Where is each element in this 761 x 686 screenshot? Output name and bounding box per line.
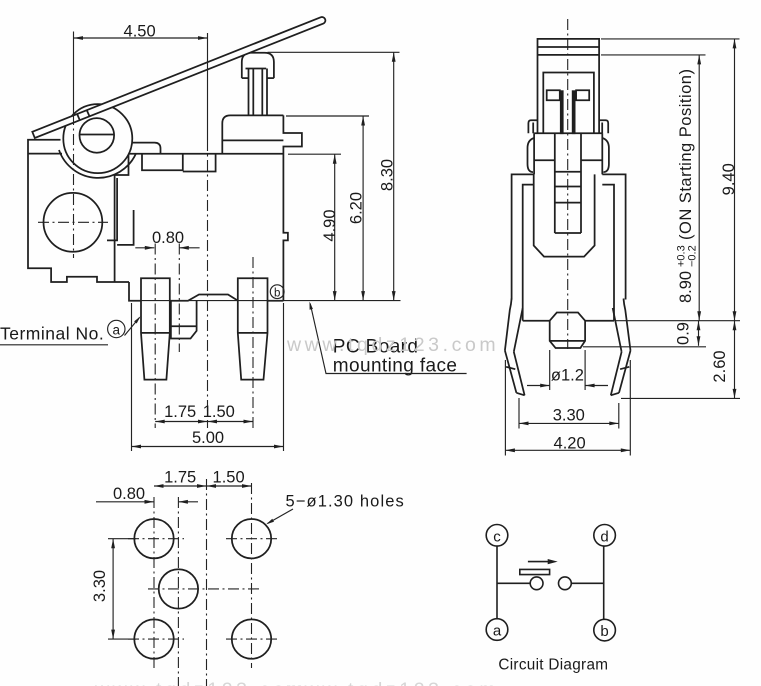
dim 4.50 line <box>74 37 208 39</box>
pcb center axis <box>206 479 208 686</box>
roller slot line <box>80 134 114 136</box>
svg-text:c: c <box>493 528 501 545</box>
body bottom face <box>523 320 550 322</box>
wire contact to d-b <box>571 582 603 584</box>
contact square right <box>576 90 589 100</box>
body pocket step 2 <box>183 154 216 172</box>
dim 3.30 line (pcb) <box>112 539 114 639</box>
svg-text:www.tqdz123.com: www.tqdz123.com <box>286 679 499 686</box>
side view: actuator lever <box>32 17 325 138</box>
leader from a to pin1 <box>125 318 140 336</box>
dim 3.30 extensions <box>518 398 520 429</box>
bracket inner step <box>107 178 117 240</box>
svg-text:5.00: 5.00 <box>192 429 224 447</box>
side clip left <box>528 138 535 172</box>
metal bracket outline <box>28 140 129 282</box>
moving contact plate <box>520 569 550 574</box>
hole row centerline top <box>128 538 184 540</box>
lower body inner lines <box>523 185 614 321</box>
hinge centerline / 4.50 extension left <box>73 32 75 115</box>
extension line body mid right <box>288 153 341 155</box>
extension line body top right <box>286 115 369 117</box>
side clip right <box>602 138 609 172</box>
svg-text:3.30: 3.30 <box>553 407 585 425</box>
dim 5.00 line <box>132 446 284 448</box>
body center axis / 4.50 extension right <box>207 33 209 140</box>
dim 0.80 line <box>135 247 154 249</box>
svg-text:b: b <box>600 623 608 640</box>
pcb hole middle <box>159 569 198 608</box>
dim 1.75/1.50 line <box>155 421 253 423</box>
dim phi1.2 extensions <box>549 350 551 390</box>
body inner pocket near pins <box>117 210 134 245</box>
stem bars <box>560 90 564 134</box>
dim 6.20 line <box>362 116 364 301</box>
svg-text:2.60: 2.60 <box>711 350 729 382</box>
hole column centerline middle <box>177 497 179 686</box>
dim 8.30 line <box>393 52 395 300</box>
svg-text:www.tqdz123.com: www.tqdz123.com <box>286 334 499 356</box>
front view inner window <box>543 73 594 134</box>
dim 0.80 line (pcb) <box>96 501 154 503</box>
dim 4.90 line <box>334 154 336 300</box>
extension cap top <box>601 38 740 40</box>
svg-text:−0.2: −0.2 <box>687 245 699 267</box>
svg-text:8.30: 8.30 <box>378 159 396 191</box>
dim 3.30 line <box>519 422 619 424</box>
extension mounting plane right <box>616 320 740 322</box>
svg-text:1.50: 1.50 <box>203 403 235 421</box>
dim 4.20 line <box>505 449 630 451</box>
pcb hole bottom-left <box>134 619 173 658</box>
hole row centerline bottom <box>128 638 184 640</box>
center pin <box>550 313 585 349</box>
hinge roller outer circle <box>63 104 132 173</box>
pcb hole top-left <box>134 519 173 558</box>
svg-text:4.90: 4.90 <box>321 209 339 241</box>
leg right <box>624 299 631 351</box>
dim 8.90 line <box>698 55 700 321</box>
svg-text:0.80: 0.80 <box>113 485 145 503</box>
dim 9.40 line <box>734 39 736 321</box>
dim 8.90 +0.3 -0.2 (ON Starting Position) text <box>676 69 699 303</box>
dim 4.20 extensions <box>504 360 506 456</box>
plunger shaft <box>554 133 556 233</box>
mounting face line <box>129 300 401 302</box>
body ledge under roller <box>110 143 161 154</box>
dim 3.30 extensions (pcb) <box>108 538 136 540</box>
side latch tab left <box>528 120 537 133</box>
plunger dome chord <box>246 68 267 70</box>
big hole horizontal centerline <box>38 221 108 223</box>
circuit terminal c balloon <box>486 525 508 547</box>
middle leg centerline <box>178 244 180 353</box>
pin1 centerline <box>154 244 156 429</box>
wire c to a <box>496 546 498 618</box>
svg-text:www.tqdz123.com: www.tqdz123.com <box>94 679 307 686</box>
fixed contact <box>559 577 572 590</box>
body bottom / PC board mounting edge <box>129 282 283 301</box>
dim phi1.2 line <box>527 385 550 387</box>
terminal a balloon <box>108 320 125 337</box>
svg-text:4.50: 4.50 <box>124 22 156 40</box>
svg-text:9.40: 9.40 <box>720 163 738 195</box>
svg-text:ø1.2: ø1.2 <box>551 367 584 385</box>
middle terminal leg <box>171 301 197 339</box>
svg-text:b: b <box>274 287 280 299</box>
svg-text:1.75: 1.75 <box>164 469 196 487</box>
svg-text:5−ø1.30 holes: 5−ø1.30 holes <box>286 493 405 511</box>
svg-text:1.50: 1.50 <box>213 469 245 487</box>
extension leg tips <box>621 397 740 399</box>
dim 0.9 line <box>698 321 700 346</box>
svg-text:a: a <box>493 623 502 640</box>
svg-text:0.80: 0.80 <box>152 229 184 247</box>
front view top cap <box>538 39 600 133</box>
lever bend tick marks <box>77 114 80 120</box>
bracket arc under roller <box>59 150 136 178</box>
svg-text:8.90: 8.90 <box>677 271 695 303</box>
shoulder seam line <box>222 139 283 141</box>
svg-text:3.30: 3.30 <box>91 570 109 602</box>
bracket big hole <box>44 193 103 252</box>
svg-text:4.20: 4.20 <box>554 434 586 452</box>
circuit terminal a balloon <box>486 619 508 641</box>
svg-text:Terminal No.: Terminal No. <box>0 324 104 344</box>
svg-text:(ON Starting Position): (ON Starting Position) <box>677 69 695 240</box>
stem base ticks <box>242 77 249 79</box>
hole row centerline middle <box>148 588 260 590</box>
svg-text:1.75: 1.75 <box>164 403 196 421</box>
terminal pin 1 <box>141 278 170 379</box>
hole column centerline right <box>251 483 253 668</box>
body right edge with tab <box>283 115 302 300</box>
wire junction stub left <box>497 582 530 584</box>
circuit terminal d balloon <box>594 525 616 547</box>
moving contact roller <box>530 577 543 590</box>
contact square left <box>547 90 560 100</box>
svg-text:Circuit Diagram: Circuit Diagram <box>498 657 608 674</box>
lower body outer <box>512 174 626 299</box>
front view center axis <box>567 19 569 349</box>
U slot <box>534 174 595 256</box>
extension cap third line <box>601 54 706 56</box>
bracket inner fold line <box>28 153 62 155</box>
svg-text:6.20: 6.20 <box>348 192 366 224</box>
switch body top line <box>129 153 284 155</box>
terminal pin 2 <box>238 278 268 379</box>
plunger stem outer <box>248 69 250 116</box>
svg-text:a: a <box>113 323 121 338</box>
mid box <box>534 133 602 174</box>
plunger stem inner <box>252 69 254 116</box>
extension line plunger top <box>268 51 400 53</box>
body pocket step 1 <box>142 154 183 171</box>
wire d to b <box>603 546 605 619</box>
extension pin bottom <box>583 346 706 348</box>
body shoulder block <box>222 115 283 153</box>
actuation arrow <box>528 561 553 563</box>
bracket right edge <box>115 155 129 283</box>
leader 5-phi1.30 <box>268 509 294 524</box>
pcb hole bottom-right <box>232 619 271 658</box>
hole column centerline left <box>153 497 155 668</box>
dim 2.60 line <box>734 321 736 399</box>
hinge roller inner circle <box>80 118 115 153</box>
pcb hole top-right <box>232 519 271 558</box>
pin2 centerline <box>252 257 254 428</box>
side latch tab right <box>599 120 608 133</box>
leader for mounting face <box>310 304 466 374</box>
leg left <box>505 299 512 351</box>
svg-text:d: d <box>600 528 608 545</box>
plunger dome <box>242 53 274 78</box>
circuit terminal b balloon <box>594 619 616 641</box>
dim 1.75/1.50 line (pcb) <box>154 485 252 487</box>
svg-text:0.9: 0.9 <box>675 322 693 345</box>
terminal b balloon <box>270 285 284 299</box>
dim 5.00 extension lines <box>131 303 133 451</box>
